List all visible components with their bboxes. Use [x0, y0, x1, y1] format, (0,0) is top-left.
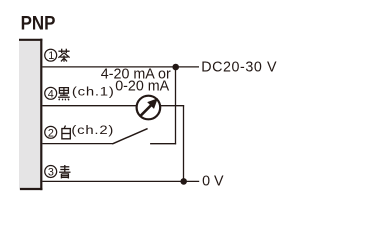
svg-text:0 V: 0 V: [202, 174, 224, 190]
svg-text:DC20-30 V: DC20-30 V: [201, 59, 277, 75]
switch contact horizontal: [150, 143, 176, 145]
bus B vertical: meter output down to 0V: [183, 106, 185, 182]
wire blue (3) to 0V: [42, 180, 199, 182]
sensor body (amplifier unit): [19, 39, 42, 190]
kanji brown (cha): [58, 49, 69, 62]
label pin4 black: circled 4: [45, 87, 57, 99]
wire white ch.2 from sensor: [42, 143, 112, 145]
kanji black (kuro): [58, 88, 70, 101]
kanji blue (ao): [59, 165, 70, 179]
ammeter needle arrow: [140, 105, 152, 117]
svg-text:4: 4: [48, 88, 54, 100]
svg-text:3: 3: [48, 167, 54, 179]
kanji white (shiro): [62, 126, 70, 139]
wire from meter to right bus: [161, 105, 184, 107]
label pin1 brown: circled 1: [45, 49, 57, 61]
ammeter M1 circle: [137, 96, 161, 120]
svg-text:(ch.1): (ch.1): [72, 85, 115, 99]
svg-text:1: 1: [48, 50, 54, 62]
svg-text:PNP: PNP: [21, 13, 56, 35]
wire brown (1) horizontal to DC supply: [42, 66, 199, 68]
bus A vertical: +V node down to switch contact: [175, 67, 177, 144]
svg-text:2: 2: [48, 127, 54, 139]
wire black ch.1 from sensor to meter: [42, 105, 136, 107]
svg-text:(ch.2): (ch.2): [71, 123, 114, 137]
label pin3 blue: circled 3: [45, 166, 57, 178]
junction node dot on 0V line: [180, 178, 187, 185]
svg-text:0-20 mA: 0-20 mA: [115, 78, 169, 94]
label pin2 white: circled 2: [45, 126, 57, 138]
junction node dot on +V line: [172, 64, 179, 71]
switch blade (open): [112, 129, 147, 144]
